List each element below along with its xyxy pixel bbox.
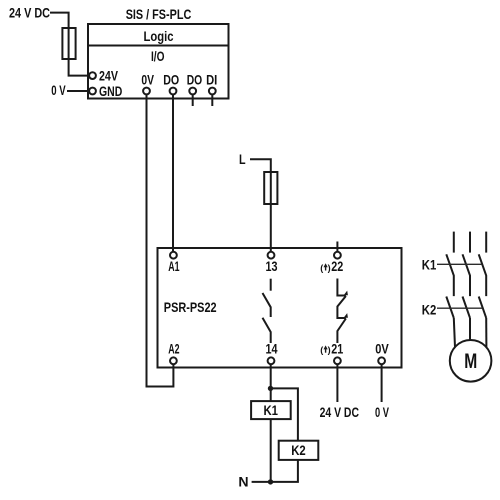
svg-text:): ) — [328, 263, 331, 273]
wire PLC 0V down to A2 loop — [147, 94, 174, 386]
terminal 13 — [268, 252, 275, 259]
svg-text:PSR-PS22: PSR-PS22 — [164, 299, 217, 315]
svg-text:L: L — [239, 151, 246, 167]
linkage K1 — [437, 263, 482, 265]
contact 22-21 (NC feedback contacts) — [337, 279, 346, 296]
svg-text:(: ( — [320, 345, 323, 355]
motor M1 — [450, 340, 492, 382]
PLC Logic section divider — [88, 45, 229, 47]
svg-text:22: 22 — [331, 258, 343, 274]
terminal 24V (PLC) — [89, 72, 96, 79]
terminal 21 — [334, 357, 341, 364]
junction node (14 branch) — [268, 386, 273, 391]
svg-text:(: ( — [320, 263, 323, 273]
svg-text:13: 13 — [266, 258, 278, 274]
svg-text:24V: 24V — [99, 67, 118, 83]
terminal 0V (PLC bottom) — [143, 88, 150, 95]
terminal DI (PLC bottom) — [209, 88, 216, 95]
coil K2 — [279, 441, 319, 460]
svg-text:0V: 0V — [141, 72, 154, 88]
wire K2 coil to N — [271, 460, 298, 482]
svg-text:A1: A1 — [168, 258, 179, 274]
svg-text:M: M — [464, 349, 477, 373]
fuse F1 (24V feed) — [62, 28, 75, 59]
svg-text:DO: DO — [163, 72, 179, 88]
terminal 0V (PSR) — [378, 357, 385, 364]
svg-text:Logic: Logic — [144, 28, 174, 44]
safety relay U1 PSR-PS22 box — [158, 248, 402, 368]
wires to motor — [454, 318, 455, 347]
wire 21 to 24V DC supply — [336, 364, 338, 402]
wire stub DO2 — [192, 94, 194, 106]
terminal A2 — [170, 357, 177, 364]
terminal DO1 (PLC bottom) — [170, 88, 177, 95]
svg-text:DO: DO — [187, 72, 203, 88]
terminal GND (PLC) — [89, 88, 96, 95]
terminal 22 with stub — [336, 242, 338, 252]
wire 0V to GND terminal — [67, 90, 89, 92]
svg-text:0 V: 0 V — [51, 82, 66, 98]
svg-text:SIS / FS-PLC: SIS / FS-PLC — [126, 6, 192, 22]
wire 0V (PSR) down — [381, 364, 383, 402]
svg-text:24 V DC: 24 V DC — [320, 404, 359, 420]
svg-text:K2: K2 — [422, 302, 437, 318]
PLC box SIS / FS-PLC — [88, 24, 229, 99]
linkage K2 — [437, 307, 482, 309]
svg-text:K2: K2 — [291, 442, 306, 458]
wire N — [252, 481, 271, 483]
terminal DO2 (PLC bottom) — [189, 88, 196, 95]
wire branch to K2 coil — [271, 388, 298, 440]
svg-text:N: N — [238, 474, 248, 490]
svg-text:): ) — [328, 345, 331, 355]
fuse F2 (L feed) — [264, 172, 277, 204]
svg-text:K1: K1 — [264, 402, 279, 418]
svg-text:24 V DC: 24 V DC — [9, 5, 50, 21]
coil K1 — [251, 401, 291, 419]
svg-text:0V: 0V — [375, 340, 389, 356]
terminal 14 — [268, 357, 275, 364]
wire L to fuse F2 and terminal 13 — [250, 159, 271, 252]
wire stub DI — [211, 94, 213, 106]
svg-text:GND: GND — [99, 83, 122, 99]
junction node (N) — [268, 479, 273, 484]
terminal A1 — [170, 252, 177, 259]
contactor K1 main contacts (3x NO) — [446, 254, 454, 296]
svg-text:K1: K1 — [422, 256, 437, 272]
svg-text:0 V: 0 V — [375, 404, 389, 420]
contact 13-14 (NO safety contacts) — [270, 279, 272, 291]
svg-text:DI: DI — [206, 72, 217, 88]
wire 3-phase supply stubs L1 L2 L3 — [453, 232, 455, 253]
wire 24V DC supply to fuse F1 and 24V terminal — [50, 13, 89, 76]
svg-text:I/O: I/O — [151, 48, 165, 64]
svg-text:A2: A2 — [168, 340, 179, 356]
contactor K2 main contacts (3x NO) — [446, 297, 454, 318]
wire PLC DO1 down to A1 — [172, 94, 174, 251]
wire 14 to K1 coil and N — [270, 364, 272, 401]
